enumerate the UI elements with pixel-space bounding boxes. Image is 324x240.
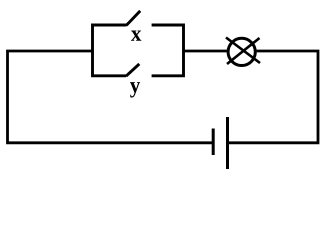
wire: middle connection from parallel combination to lamp (184, 50, 227, 53)
switch x (open blade) (126, 11, 140, 26)
wire: left loop from parallel combination down to battery negative (8, 51, 213, 143)
label y (130, 82, 140, 97)
lamp L1: cross stroke 2 (227, 38, 260, 64)
switch y (open blade) (126, 64, 139, 76)
battery positive plate (long) (226, 117, 229, 169)
wire: from battery positive along bottom and up right side to lamp (228, 51, 319, 143)
lamp L1: circle (228, 38, 255, 65)
node: right junction of parallel switches (152, 25, 184, 76)
battery negative plate (short) (212, 129, 215, 156)
lamp L1: cross stroke 1 (226, 38, 260, 64)
node: left junction of parallel switches (93, 25, 127, 76)
label x (131, 31, 141, 41)
